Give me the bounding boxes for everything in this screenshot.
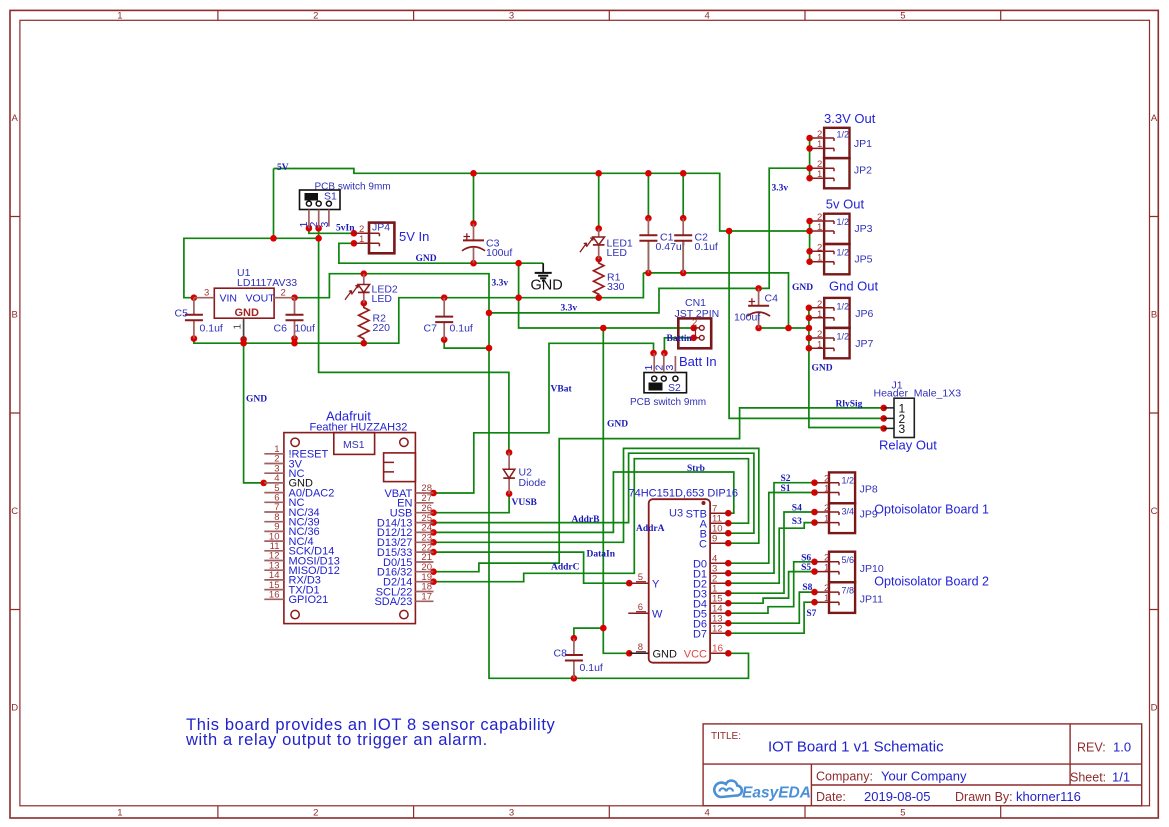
- svg-text:5V In: 5V In: [399, 229, 429, 244]
- wire C8 bottom stub: [573, 672, 575, 678]
- svg-text:JP1: JP1: [854, 138, 872, 150]
- wire feather pin23 to U3 C: [434, 448, 759, 543]
- svg-text:4: 4: [705, 11, 710, 22]
- svg-text:1: 1: [817, 222, 822, 233]
- header JP7: [809, 328, 874, 358]
- svg-text:1: 1: [117, 11, 122, 22]
- header JP8: [815, 472, 878, 503]
- wire GND bottom rail: [194, 273, 644, 343]
- svg-text:JP8: JP8: [860, 484, 878, 496]
- svg-text:S3: S3: [792, 517, 802, 527]
- svg-text:3: 3: [664, 365, 676, 371]
- svg-text:5: 5: [900, 11, 905, 22]
- svg-text:W: W: [652, 608, 663, 620]
- svg-text:9: 9: [712, 534, 717, 545]
- svg-text:C8: C8: [554, 648, 568, 660]
- wire U1 VOUT 3.3v run and VCC loop: [295, 274, 749, 679]
- connector J1: [874, 380, 962, 438]
- svg-text:C7: C7: [424, 323, 438, 335]
- ground symbol: [535, 263, 552, 281]
- svg-text:3.3V Out: 3.3V Out: [824, 111, 876, 126]
- svg-text:5V: 5V: [277, 163, 289, 173]
- svg-text:LED: LED: [372, 293, 393, 305]
- svg-text:Diode: Diode: [519, 477, 547, 489]
- svg-text:0.1uf: 0.1uf: [200, 323, 223, 335]
- wire D4 to JP10 pin1 S5: [728, 572, 814, 604]
- svg-text:S5: S5: [801, 563, 811, 573]
- svg-text:LD1117AV33: LD1117AV33: [237, 277, 297, 289]
- led LED2: [345, 274, 398, 305]
- svg-text:1: 1: [359, 234, 364, 245]
- wire C4 bottom to JP6 JP7 column: [759, 327, 809, 329]
- svg-text:5: 5: [900, 808, 905, 819]
- svg-text:AddrC: AddrC: [551, 562, 580, 572]
- svg-text:Feather HUZZAH32: Feather HUZZAH32: [310, 422, 408, 434]
- svg-text:D: D: [1151, 703, 1158, 714]
- wire DataIn feather pin22 to U3 Y: [434, 552, 630, 583]
- svg-text:S2: S2: [668, 382, 681, 394]
- wire S1 pin2 down to U2 anode: [319, 228, 509, 452]
- wire D2 to JP9 pin1 S3: [728, 523, 814, 584]
- header JP10: [815, 552, 884, 583]
- svg-text:2: 2: [692, 318, 697, 329]
- svg-text:Strb: Strb: [687, 464, 705, 474]
- capacitor C8: [554, 638, 603, 678]
- wire D5 to JP10 pin2 S6: [728, 562, 814, 613]
- svg-text:JP11: JP11: [860, 594, 883, 606]
- wire GND drop to CN1 pin2: [519, 263, 694, 328]
- svg-text:0.1uf: 0.1uf: [580, 662, 603, 674]
- svg-text:Drawn By:: Drawn By:: [955, 790, 1013, 804]
- wire D3 to JP9 pin2 S4: [728, 512, 814, 593]
- title block: [703, 724, 1142, 806]
- capacitor C6: [274, 298, 316, 339]
- header JP9: [815, 503, 878, 533]
- svg-text:1: 1: [817, 253, 822, 264]
- svg-text:74HC151D,653 DIP16: 74HC151D,653 DIP16: [629, 488, 738, 500]
- svg-text:SDA/23: SDA/23: [374, 596, 412, 608]
- wire JP4 pin1 GND run: [339, 243, 543, 263]
- svg-text:3: 3: [899, 422, 906, 436]
- svg-text:Optoisolator Board 2: Optoisolator Board 2: [874, 575, 989, 589]
- svg-text:VIN: VIN: [220, 292, 238, 304]
- svg-text:3: 3: [509, 11, 514, 22]
- svg-text:12: 12: [712, 624, 723, 635]
- module Adafruit Feather HUZZAH32: [284, 409, 416, 624]
- wire 5V horizontal to U1 VIN: [184, 238, 319, 297]
- svg-text:A: A: [12, 113, 19, 124]
- wire AddrB feather pin25 to U3 B: [434, 453, 754, 533]
- svg-text:REV:: REV:: [1077, 741, 1106, 755]
- svg-text:U3: U3: [669, 508, 683, 520]
- svg-text:2: 2: [824, 503, 829, 514]
- svg-text:JP7: JP7: [855, 338, 873, 350]
- svg-text:100uf: 100uf: [734, 312, 760, 324]
- svg-text:2019-08-05: 2019-08-05: [864, 789, 931, 804]
- wire CN1 pin1 to S2 pin2 Battin: [664, 338, 693, 353]
- svg-text:JP10: JP10: [860, 563, 884, 575]
- svg-text:330: 330: [607, 281, 625, 293]
- svg-text:S8: S8: [802, 583, 812, 593]
- svg-text:1: 1: [824, 593, 829, 604]
- svg-text:2: 2: [817, 242, 822, 253]
- wire VUSB feather pin26 to U2 cathode: [434, 494, 510, 513]
- svg-text:C6: C6: [274, 323, 288, 335]
- svg-text:RlySig: RlySig: [836, 399, 863, 409]
- svg-text:7/8: 7/8: [842, 585, 855, 595]
- wire C2 leads: [682, 173, 684, 273]
- svg-text:3: 3: [509, 808, 514, 819]
- wire C8 top jog to GND: [574, 628, 603, 638]
- capacitor C5: [175, 298, 223, 339]
- svg-text:2: 2: [313, 11, 318, 22]
- svg-text:3: 3: [319, 222, 331, 228]
- svg-text:1: 1: [824, 483, 829, 494]
- svg-text:Date:: Date:: [816, 790, 846, 804]
- svg-text:Your Company: Your Company: [881, 769, 967, 784]
- svg-text:3.3v: 3.3v: [772, 184, 789, 194]
- svg-text:DataIn: DataIn: [587, 550, 616, 560]
- svg-text:S7: S7: [806, 609, 816, 619]
- svg-text:1: 1: [117, 808, 122, 819]
- header JP2: [810, 158, 873, 188]
- svg-text:1/2: 1/2: [837, 331, 850, 341]
- connector JP4: [354, 222, 395, 254]
- svg-text:EasyEDA: EasyEDA: [742, 785, 811, 802]
- svg-text:Y: Y: [652, 578, 660, 590]
- svg-text:1: 1: [233, 324, 244, 330]
- wire 5V branch to J1 pin2: [729, 231, 884, 418]
- header JP1: [810, 128, 873, 158]
- wire LED1 top: [598, 173, 600, 228]
- wire AddrC feather pin20 to J1 pin1 RlySig: [434, 408, 884, 572]
- svg-text:B: B: [12, 310, 18, 321]
- svg-text:0.47uf: 0.47uf: [656, 241, 685, 253]
- EasyEDA logo: [714, 781, 811, 802]
- svg-text:VCC: VCC: [684, 648, 707, 660]
- svg-text:4: 4: [705, 808, 710, 819]
- wire feather pin19 to U3 A: [434, 459, 749, 582]
- svg-text:GND: GND: [812, 364, 833, 374]
- svg-text:3.3v: 3.3v: [492, 279, 509, 289]
- svg-text:1/2: 1/2: [837, 247, 850, 257]
- svg-text:Header_Male_1X3: Header_Male_1X3: [874, 388, 962, 400]
- svg-text:GND: GND: [246, 395, 267, 405]
- svg-text:10uf: 10uf: [295, 323, 316, 335]
- svg-text:C4: C4: [765, 293, 779, 305]
- svg-text:VBat: VBat: [551, 385, 573, 395]
- svg-text:0.1uf: 0.1uf: [695, 241, 718, 253]
- svg-text:C: C: [1151, 506, 1158, 517]
- multiplexer U3: [628, 488, 738, 663]
- wire C7 bottom to 3.3v: [444, 340, 489, 348]
- svg-text:2: 2: [281, 288, 286, 299]
- svg-text:220: 220: [373, 322, 391, 334]
- wire S1 pin1 to JP4 pin2: [309, 228, 354, 233]
- svg-text:Optoisolator Board 1: Optoisolator Board 1: [874, 503, 989, 517]
- header JP6: [809, 298, 874, 328]
- svg-text:Relay Out: Relay Out: [879, 438, 937, 453]
- capacitor C7: [424, 298, 473, 340]
- svg-text:Batt In: Batt In: [679, 354, 717, 369]
- wire D6 to JP11 pin2 S8: [728, 592, 814, 623]
- svg-text:Gnd Out: Gnd Out: [829, 279, 879, 294]
- wire 5V top rail: [274, 169, 810, 232]
- wire 5V label drop: [273, 169, 275, 239]
- wire D1 to JP8 pin2 S2: [728, 483, 814, 574]
- svg-text:S1: S1: [324, 191, 337, 203]
- svg-text:khorner116: khorner116: [1016, 789, 1081, 804]
- svg-text:2: 2: [817, 129, 822, 140]
- svg-text:2: 2: [313, 808, 318, 819]
- svg-text:1: 1: [824, 562, 829, 573]
- svg-text:100uf: 100uf: [486, 247, 512, 259]
- diode U2: [503, 453, 546, 494]
- header JP5: [810, 242, 873, 274]
- svg-text:16: 16: [712, 644, 724, 655]
- svg-text:3.3v: 3.3v: [561, 304, 578, 314]
- svg-text:16: 16: [269, 590, 280, 601]
- wire D0 to JP8 pin1 S1: [728, 493, 814, 564]
- wire S2 pin1 VBat run to feather pin28: [434, 343, 654, 493]
- svg-text:1/2: 1/2: [837, 130, 850, 140]
- svg-text:GND: GND: [653, 648, 678, 660]
- svg-text:JP2: JP2: [854, 165, 872, 177]
- svg-text:5/6: 5/6: [842, 555, 855, 565]
- wire JP6 JP7 pin column to J1 pin3: [809, 308, 884, 428]
- svg-text:3/4: 3/4: [842, 506, 855, 516]
- capacitor C2: [674, 218, 718, 273]
- svg-text:1.0: 1.0: [1113, 740, 1131, 755]
- svg-text:GND: GND: [531, 278, 563, 294]
- svg-text:5v Out: 5v Out: [826, 197, 865, 212]
- pcb switch S1: [298, 182, 391, 229]
- wire U1 GND down to feather pin4: [244, 339, 264, 483]
- svg-text:S6: S6: [801, 553, 811, 563]
- svg-text:GND: GND: [416, 254, 437, 264]
- svg-text:S4: S4: [792, 503, 802, 513]
- led LED1: [580, 229, 633, 260]
- svg-text:JP3: JP3: [854, 223, 872, 235]
- wire C1 C2 GND header run: [643, 273, 788, 328]
- svg-text:Sheet:: Sheet:: [1070, 771, 1106, 785]
- capacitor C4 polarized: [734, 288, 778, 328]
- feather left pins 1-16: [264, 444, 340, 606]
- capacitor C3 polarized: [462, 224, 512, 264]
- svg-text:JP6: JP6: [855, 308, 873, 320]
- header JP11: [815, 582, 884, 613]
- svg-text:2: 2: [817, 329, 822, 340]
- svg-text:1/2: 1/2: [837, 217, 850, 227]
- svg-text:A: A: [1151, 113, 1158, 124]
- svg-text:0.1uf: 0.1uf: [450, 323, 473, 335]
- svg-text:GND: GND: [289, 478, 314, 490]
- svg-text:1: 1: [817, 339, 822, 350]
- svg-text:Battin: Battin: [667, 334, 693, 344]
- svg-text:GND: GND: [235, 307, 260, 319]
- svg-text:VOUT: VOUT: [246, 292, 276, 304]
- wire JP1 JP2 pin column: [809, 138, 811, 178]
- header JP3: [810, 212, 873, 244]
- svg-text:JP4: JP4: [372, 222, 390, 234]
- wire JP3 JP5 pin column: [809, 221, 811, 262]
- svg-text:C5: C5: [175, 308, 189, 320]
- svg-text:GND: GND: [792, 283, 813, 293]
- svg-text:VUSB: VUSB: [512, 498, 538, 508]
- wire D7 to JP11 pin1 S7: [728, 602, 814, 633]
- resistor R2: [359, 303, 391, 343]
- svg-text:TITLE:: TITLE:: [711, 731, 741, 742]
- svg-text:1: 1: [817, 169, 822, 180]
- svg-text:1/2: 1/2: [837, 301, 850, 311]
- svg-text:C: C: [699, 538, 707, 550]
- svg-text:PCB switch 9mm: PCB switch 9mm: [630, 397, 706, 408]
- svg-text:LED: LED: [607, 247, 628, 259]
- svg-text:Company:: Company:: [816, 770, 873, 784]
- svg-text:1: 1: [824, 513, 829, 524]
- svg-text:with a relay output to trigger: with a relay output to trigger an alarm.: [185, 731, 488, 749]
- svg-text:AddrA: AddrA: [636, 524, 665, 534]
- svg-text:S2: S2: [781, 474, 791, 484]
- regulator U1: [194, 267, 297, 339]
- svg-text:D7: D7: [693, 628, 707, 640]
- wire C1 leads: [647, 173, 649, 273]
- svg-text:B: B: [1151, 310, 1157, 321]
- svg-text:IOT Board 1 v1 Schematic: IOT Board 1 v1 Schematic: [768, 739, 944, 756]
- svg-text:D: D: [11, 703, 18, 714]
- feather right pins 28-17: [374, 483, 433, 608]
- svg-text:5vIn: 5vIn: [336, 224, 355, 234]
- svg-text:C: C: [11, 506, 18, 517]
- svg-text:JP5: JP5: [854, 254, 872, 266]
- wire C6 bottom stub: [294, 339, 296, 344]
- wire AddrA feather pin24 to U3 STB: [434, 472, 734, 532]
- wire GND vertical to U3 pin8: [603, 328, 629, 653]
- svg-text:AddrB: AddrB: [572, 515, 601, 525]
- wire 3.3v branch to C4 and JP2: [489, 168, 810, 313]
- capacitor C1: [639, 218, 684, 273]
- svg-text:1/2: 1/2: [842, 476, 855, 486]
- svg-text:3: 3: [204, 288, 209, 299]
- svg-text:1: 1: [817, 139, 822, 150]
- svg-text:MS1: MS1: [343, 439, 365, 451]
- svg-text:1: 1: [817, 309, 822, 320]
- resistor R1: [594, 259, 625, 298]
- pcb switch S2: [630, 353, 706, 408]
- svg-text:GND: GND: [607, 420, 628, 430]
- svg-text:GPIO21: GPIO21: [289, 594, 329, 606]
- svg-text:17: 17: [421, 592, 432, 603]
- svg-text:1/1: 1/1: [1112, 770, 1130, 785]
- wire C3 top from 5V rail: [473, 173, 475, 223]
- svg-text:S1: S1: [781, 484, 791, 494]
- connector CN1: [675, 297, 720, 348]
